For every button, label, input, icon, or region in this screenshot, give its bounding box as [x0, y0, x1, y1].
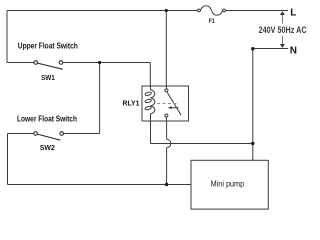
- svg-text:RLY1: RLY1: [123, 101, 140, 108]
- svg-text:F1: F1: [209, 18, 215, 25]
- svg-text:N: N: [290, 46, 297, 57]
- svg-text:Lower Float Switch: Lower Float Switch: [17, 114, 77, 123]
- svg-text:L: L: [290, 8, 296, 19]
- svg-text:240V 50Hz AC: 240V 50Hz AC: [259, 25, 307, 35]
- svg-text:Upper Float Switch: Upper Float Switch: [18, 42, 78, 51]
- svg-text:SW1: SW1: [41, 75, 55, 82]
- svg-text:Mini pump: Mini pump: [211, 180, 245, 189]
- svg-text:SW2: SW2: [40, 145, 55, 152]
